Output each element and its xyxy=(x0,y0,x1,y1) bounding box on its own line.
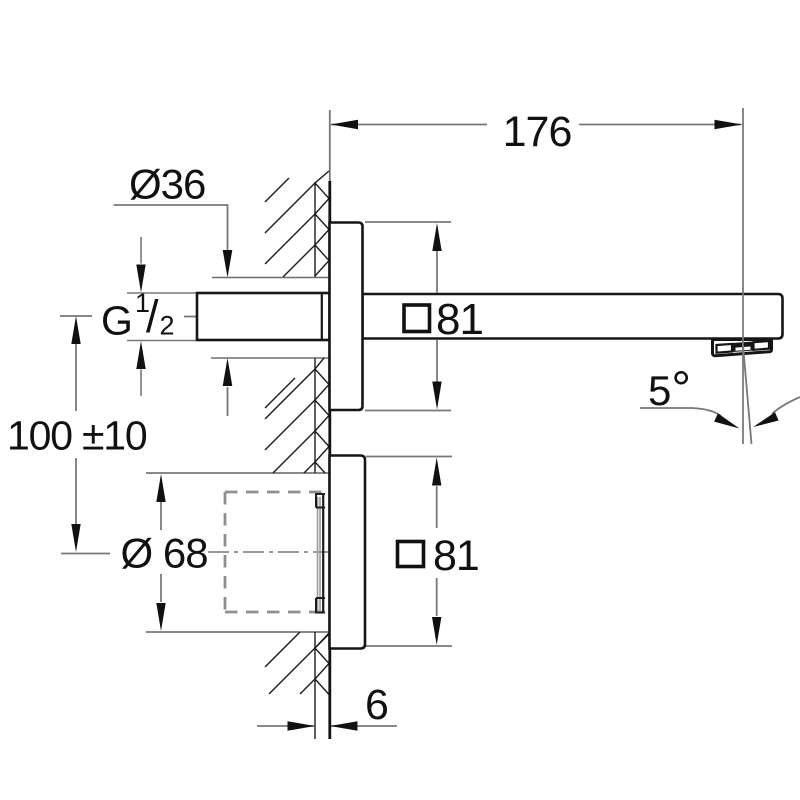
mounting rail thin bar xyxy=(318,497,321,611)
wall finish zigzag segment A xyxy=(315,171,329,276)
dimension 100 ±10 lines xyxy=(60,316,110,554)
water stream 5° line xyxy=(743,345,752,444)
vertical extension line at spout outlet xyxy=(742,108,744,444)
dimension square-81 upper arrow up xyxy=(432,223,441,251)
dimension Ø68 lines xyxy=(146,473,329,632)
svg-text:/: / xyxy=(146,291,159,342)
svg-text:Ø36: Ø36 xyxy=(129,161,205,208)
wall surface main line (black segments) xyxy=(328,181,331,293)
label G 1/2 xyxy=(101,288,175,344)
leader tick G1/2 xyxy=(184,316,198,318)
spout body xyxy=(363,294,783,339)
svg-text:100 ±10: 100 ±10 xyxy=(7,413,147,459)
5° angle leader left xyxy=(640,408,721,416)
dimension 100±10 arrow up xyxy=(71,316,80,344)
label square-81 upper square symbol xyxy=(404,305,430,332)
dimension square-81 lower arrow up xyxy=(432,458,441,486)
inlet pipe G1/2 xyxy=(197,293,330,340)
wall hatch pattern segment A xyxy=(265,178,315,277)
aerator (tilted 5°) xyxy=(713,340,772,356)
dimension square-81 lower arrow down xyxy=(432,617,441,645)
label square-81 lower square symbol xyxy=(398,542,424,567)
mounting rail top clip xyxy=(316,494,325,508)
dimension Ø36 arrow down xyxy=(223,250,233,278)
wall hatch pattern segment C xyxy=(265,632,329,694)
mounting rail bottom clip xyxy=(316,598,325,613)
dash-dot center line of concealed body xyxy=(208,551,330,553)
svg-text:176: 176 xyxy=(503,108,572,156)
5° angle arrow right xyxy=(753,412,779,427)
svg-text:81: 81 xyxy=(433,532,479,580)
dimension 176 arrow right xyxy=(715,120,743,129)
leader line for Ø36 xyxy=(114,205,229,416)
G 1/2 extension lines xyxy=(127,237,196,396)
upper escutcheon plate xyxy=(330,223,363,411)
inlet pipe end cap line xyxy=(321,293,323,340)
dimension square-81 upper arrow down xyxy=(432,382,441,410)
wall hatch pattern segment B xyxy=(265,369,315,473)
dimension 176 line xyxy=(331,124,742,126)
dimension G1/2 arrow up xyxy=(136,341,145,369)
dimension square-81 lower lines xyxy=(366,457,452,647)
dimension square-81 upper lines xyxy=(365,222,451,411)
dimension Ø68 arrow up xyxy=(156,474,165,502)
dimension 6 arrow right xyxy=(288,721,316,730)
dimension 6 right line xyxy=(331,725,397,727)
mounting rail face line xyxy=(322,494,324,613)
concealed body dashed outline xyxy=(225,492,322,612)
dimension 6 arrow left xyxy=(330,721,358,730)
5° angle leader right xyxy=(772,397,800,414)
svg-text:6: 6 xyxy=(365,681,389,729)
wall finish inner line segment A xyxy=(314,182,316,277)
svg-text:5°: 5° xyxy=(648,362,691,416)
svg-text:Ø 68: Ø 68 xyxy=(121,530,208,577)
svg-text:81: 81 xyxy=(436,295,483,344)
dimension G1/2 arrow down xyxy=(136,265,145,293)
svg-text:G: G xyxy=(101,298,133,344)
wall finish inner line segment B xyxy=(314,358,316,473)
wall finish zigzag segment B xyxy=(315,358,329,473)
dimension 6 left line xyxy=(257,725,314,727)
dimension 176 arrow left xyxy=(331,120,359,129)
dimension Ø68 arrow down xyxy=(156,603,165,631)
svg-text:2: 2 xyxy=(160,311,175,341)
wall hole edge lines (Ø36 references) xyxy=(211,278,329,359)
5° angle arrow left xyxy=(714,413,739,428)
dimension Ø36 arrow up xyxy=(223,358,233,386)
wire: wall surface extension line (gray, full) xyxy=(329,110,331,182)
wall finish zigzag segment C xyxy=(315,633,329,695)
dimension 100±10 arrow down xyxy=(71,524,80,552)
lower escutcheon plate xyxy=(330,456,366,649)
wall finish inner line segment C xyxy=(314,632,316,739)
